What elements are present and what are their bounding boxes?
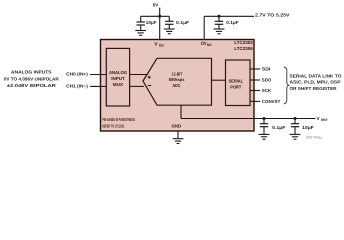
- svg-text:INPUT: INPUT: [111, 76, 125, 81]
- svg-text:ASIC, PLD, MPU, DSP: ASIC, PLD, MPU, DSP: [290, 80, 341, 85]
- svg-text:500ksps: 500ksps: [169, 77, 185, 82]
- svg-text:LTC2306: LTC2306: [234, 46, 253, 51]
- svg-text:10µF: 10µF: [302, 125, 314, 130]
- svg-text:PIN NAMES IN PARENTHESIS: PIN NAMES IN PARENTHESIS: [102, 117, 135, 122]
- svg-text:OR SHIFT REGISTER: OR SHIFT REGISTER: [290, 86, 338, 91]
- svg-text:5V: 5V: [153, 3, 160, 8]
- svg-text:CH1 (IN−): CH1 (IN−): [66, 84, 88, 89]
- svg-text:SERIAL: SERIAL: [229, 79, 244, 84]
- svg-text:GND: GND: [172, 124, 182, 129]
- svg-text:LTC2302: LTC2302: [234, 40, 253, 45]
- svg-text:MUX: MUX: [113, 82, 123, 87]
- svg-text:0.1µF: 0.1µF: [226, 20, 239, 25]
- svg-text:ANALOG INPUTS: ANALOG INPUTS: [11, 70, 52, 75]
- svg-text:2302 TA01a: 2302 TA01a: [306, 136, 322, 140]
- svg-text:10µF: 10µF: [146, 20, 157, 25]
- svg-text:CH0 (IN+): CH0 (IN+): [66, 72, 88, 77]
- svg-text:SDO: SDO: [262, 78, 272, 83]
- svg-text:V: V: [317, 116, 321, 121]
- svg-text:ANALOG: ANALOG: [109, 70, 128, 75]
- svg-text:SERIAL DATA LINK TO: SERIAL DATA LINK TO: [290, 73, 343, 78]
- svg-text:±2.048V BIPOLAR: ±2.048V BIPOLAR: [7, 83, 57, 88]
- svg-text:ADC: ADC: [172, 83, 180, 88]
- svg-text:SCK: SCK: [262, 88, 272, 93]
- svg-text:PORT: PORT: [230, 84, 241, 89]
- svg-text:DD: DD: [159, 43, 164, 47]
- svg-text:0.1µF: 0.1µF: [176, 20, 190, 25]
- svg-text:DD: DD: [207, 43, 212, 47]
- svg-text:REFER TO LTC2302: REFER TO LTC2302: [102, 123, 124, 128]
- svg-text:SDI: SDI: [262, 67, 271, 72]
- svg-text:REF: REF: [321, 118, 328, 122]
- svg-text:2.7V TO 5.25V: 2.7V TO 5.25V: [255, 13, 290, 18]
- svg-text:CONVST: CONVST: [262, 99, 281, 104]
- svg-text:12-BIT: 12-BIT: [172, 72, 183, 77]
- svg-text:0V TO 4.096V UNIPOLAR: 0V TO 4.096V UNIPOLAR: [4, 76, 60, 81]
- svg-text:0.1µF: 0.1µF: [272, 125, 286, 130]
